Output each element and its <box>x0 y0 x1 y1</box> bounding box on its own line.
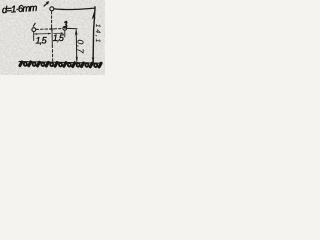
dim arrow right span <box>54 32 64 34</box>
junction tick <box>50 28 53 30</box>
svg-text:0,7: 0,7 <box>75 40 85 55</box>
label 3 above node 3 <box>65 22 67 28</box>
arrowhead down <box>76 56 79 61</box>
svg-text:1,5: 1,5 <box>36 36 48 46</box>
hand-drawn sketch: three-wire line above ground with dimensions <box>0 0 105 75</box>
arrow label 2 (top conductor pointer) <box>44 3 48 6</box>
node circle 1 (left conductor) <box>32 28 36 32</box>
wire right vertical <box>93 7 95 62</box>
arrowhead up on right dimension line <box>92 12 96 20</box>
extension from node3 to dim line <box>67 27 77 29</box>
dashed center drop to ground <box>51 45 53 61</box>
arrowhead down at ground on right line <box>92 57 95 62</box>
label d=1.6mm <box>2 3 38 16</box>
node circle 3 (right conductor) <box>63 26 67 30</box>
arrowhead up <box>75 30 78 36</box>
svg-text:14,1: 14,1 <box>94 24 101 44</box>
ground line <box>19 62 102 64</box>
dashed line between node1 and node3 <box>36 28 63 31</box>
left height dimension line <box>75 30 78 62</box>
extension below node 3 <box>64 31 66 38</box>
extension below node 1 <box>33 32 35 41</box>
extension center <box>51 30 53 45</box>
node circle 2 (top conductor) <box>50 7 54 11</box>
wire top horizontal <box>54 8 95 9</box>
dim arrow left span <box>35 33 51 35</box>
svg-text:1,5: 1,5 <box>53 33 65 43</box>
ground hatching <box>20 62 101 67</box>
dashed drop from node 2 <box>51 12 53 28</box>
tick label above node 1 <box>33 23 35 26</box>
